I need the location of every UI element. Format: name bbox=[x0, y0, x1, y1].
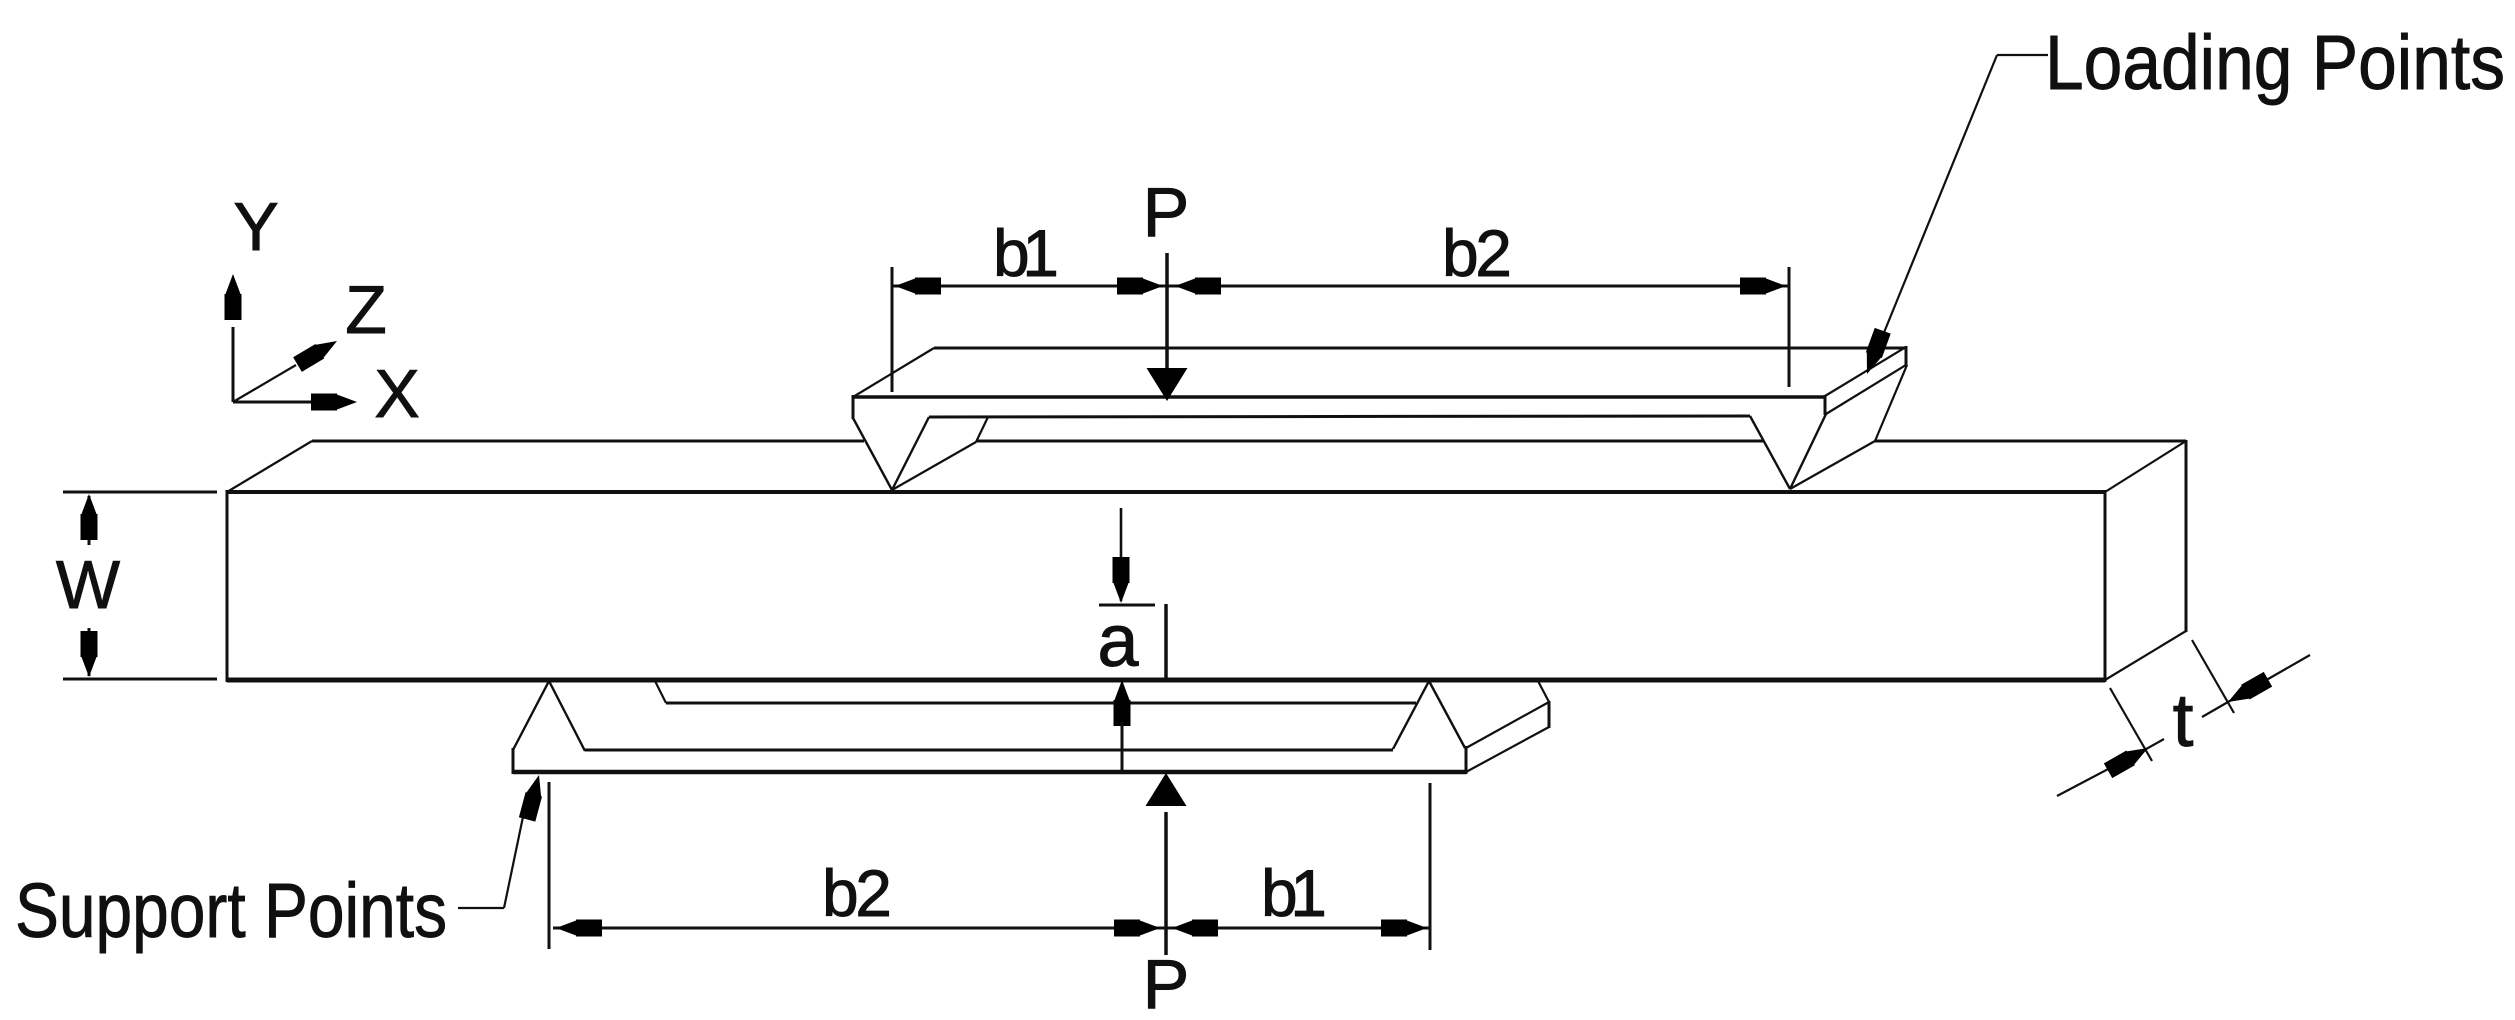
svg-text:b2: b2 bbox=[1442, 216, 1512, 290]
svg-text:X: X bbox=[374, 356, 419, 432]
svg-text:a: a bbox=[1097, 599, 1139, 682]
svg-text:b2: b2 bbox=[822, 856, 892, 930]
svg-text:P: P bbox=[1143, 945, 1190, 1020]
svg-text:t: t bbox=[2173, 678, 2194, 762]
svg-text:Z: Z bbox=[345, 272, 387, 348]
svg-text:b1: b1 bbox=[993, 216, 1059, 290]
svg-text:Support Points: Support Points bbox=[15, 868, 447, 954]
svg-text:W: W bbox=[56, 547, 120, 623]
svg-text:P: P bbox=[1143, 173, 1190, 251]
svg-text:Loading Points: Loading Points bbox=[2045, 20, 2505, 106]
svg-text:Y: Y bbox=[233, 189, 278, 265]
svg-text:b1: b1 bbox=[1261, 856, 1327, 930]
